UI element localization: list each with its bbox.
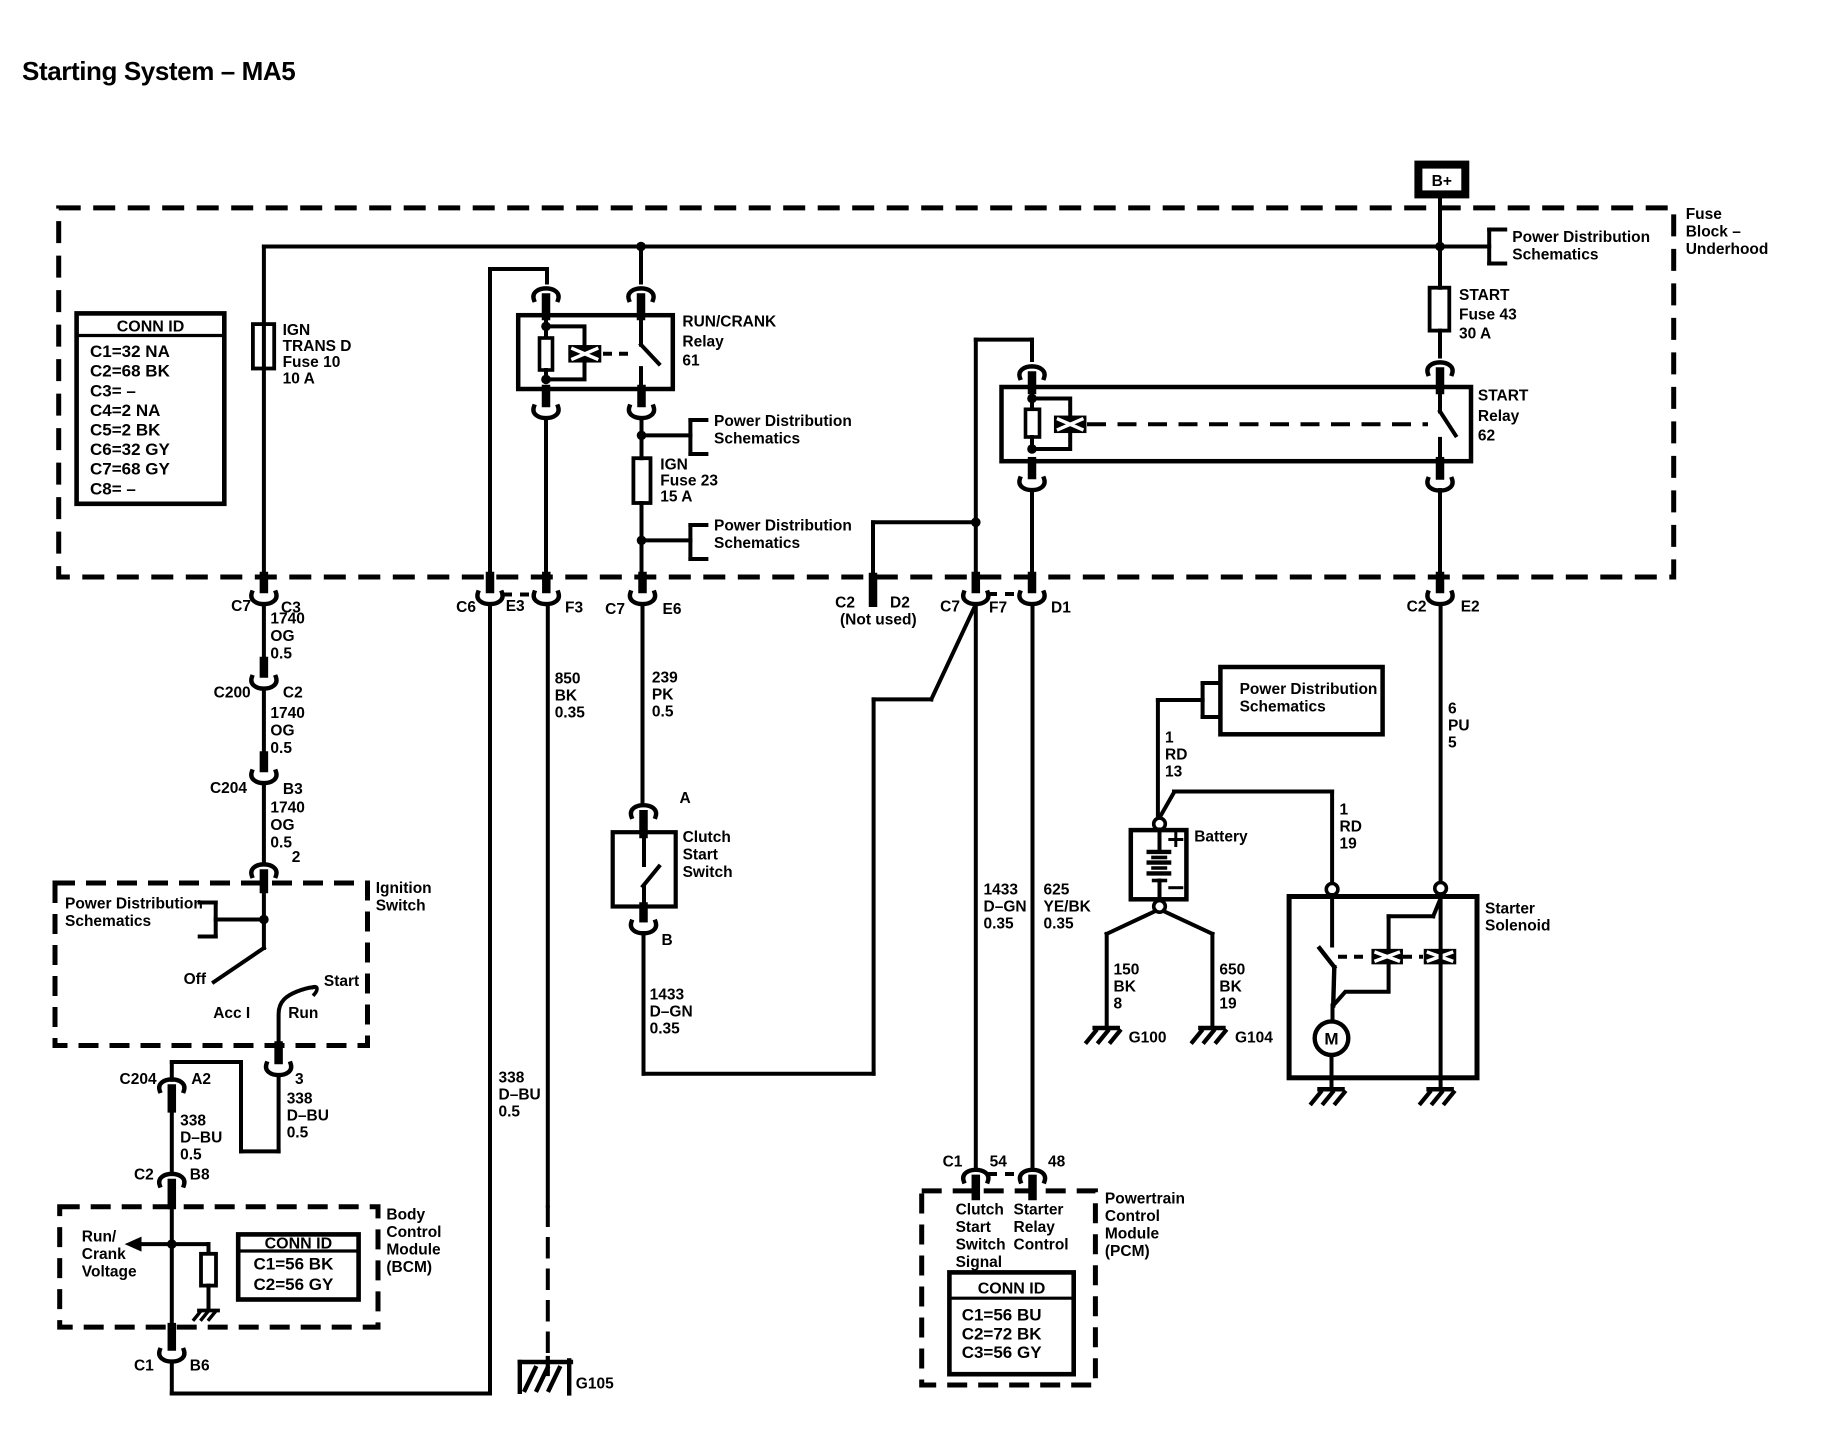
- wire battery negative to grounds: [1107, 911, 1213, 1028]
- solenoid winding RUN/CRANK: [568, 345, 601, 363]
- svg-text:Schematics: Schematics: [1512, 246, 1598, 263]
- svg-text:Schematics: Schematics: [65, 913, 151, 930]
- svg-text:YE/BK: YE/BK: [1044, 898, 1092, 915]
- label powertrain control module: [1105, 1191, 1185, 1261]
- title: [22, 56, 295, 86]
- svg-text:E6: E6: [663, 601, 682, 618]
- svg-text:Underhood: Underhood: [1686, 241, 1769, 258]
- svg-text:OG: OG: [270, 723, 294, 740]
- connector C204/B3 cup: [251, 772, 276, 784]
- label wire 338 D-BU 0.5 (riser): [499, 1069, 541, 1120]
- svg-text:F3: F3: [565, 600, 583, 617]
- svg-text:2: 2: [292, 849, 301, 866]
- svg-text:E3: E3: [506, 598, 525, 615]
- svg-text:Solenoid: Solenoid: [1485, 917, 1550, 934]
- svg-text:TRANS D: TRANS D: [283, 338, 352, 355]
- wire BCM to internal resistor: [172, 1244, 209, 1254]
- svg-text:C2: C2: [835, 595, 855, 612]
- label wire 1740 OG 0.5 (mid): [270, 705, 304, 757]
- svg-text:C2: C2: [1407, 599, 1427, 616]
- ground starter motor: [1312, 1089, 1345, 1103]
- label starter solenoid: [1485, 900, 1550, 934]
- svg-text:C2=68 BK: C2=68 BK: [90, 362, 171, 381]
- svg-text:C1=32 NA: C1=32 NA: [90, 342, 170, 361]
- svg-text:(BCM): (BCM): [386, 1259, 432, 1276]
- dashed actuator line solenoid: [1338, 955, 1423, 959]
- svg-text:850: 850: [555, 670, 581, 687]
- svg-text:Fuse 23: Fuse 23: [660, 473, 718, 490]
- svg-text:D–BU: D–BU: [287, 1107, 329, 1124]
- resistor BCM pull-down: [201, 1254, 216, 1286]
- label 3: [295, 1071, 304, 1088]
- ground solenoid winding: [1421, 1089, 1454, 1103]
- connector C200/C2 cup: [251, 677, 276, 689]
- connector C7/F7 stub: [972, 576, 981, 589]
- resistor RUN/CRANK coil parallel: [540, 338, 553, 370]
- off-page connector power distribution (ignition): [200, 903, 216, 937]
- svg-text:Start: Start: [324, 973, 359, 990]
- svg-text:Schematics: Schematics: [714, 430, 800, 447]
- svg-text:Control: Control: [1105, 1208, 1160, 1225]
- label wire 1433 D-GN 0.35 (clutch): [650, 986, 693, 1037]
- svg-text:D–BU: D–BU: [180, 1129, 222, 1146]
- svg-text:Voltage: Voltage: [82, 1264, 137, 1281]
- svg-text:RD: RD: [1165, 746, 1187, 763]
- wire START switch to E2 exit: [1438, 490, 1442, 576]
- node RUN/CRANK coil bottom: [541, 375, 551, 385]
- svg-text:0.35: 0.35: [555, 704, 586, 721]
- svg-text:Run: Run: [288, 1005, 318, 1022]
- svg-text:1: 1: [1340, 802, 1349, 819]
- connector START coil bottom cup: [1019, 479, 1044, 491]
- connector C200 pin stub: [260, 661, 269, 674]
- connector C2/E2 stub: [1436, 576, 1445, 589]
- wire motor to ground: [1330, 1055, 1334, 1089]
- label Off: [184, 971, 207, 988]
- svg-text:0.35: 0.35: [1044, 915, 1075, 932]
- ignition switch blade (Off position): [214, 948, 264, 982]
- svg-text:1433: 1433: [984, 881, 1019, 898]
- node START coil bottom: [1027, 444, 1037, 454]
- svg-text:BK: BK: [555, 687, 578, 704]
- svg-text:OG: OG: [270, 817, 294, 834]
- label E2: [1461, 599, 1480, 616]
- label C6: [456, 599, 476, 616]
- wire B+ to START fuse 43: [1438, 198, 1442, 287]
- svg-text:A2: A2: [191, 1071, 211, 1088]
- ground G100: [1087, 1028, 1120, 1042]
- connector START switch top stub: [1436, 372, 1445, 391]
- svg-text:Relay: Relay: [1478, 408, 1520, 425]
- connector C2/B8 stub: [168, 1183, 177, 1205]
- label D2: [890, 595, 910, 612]
- dashed actuator line START relay: [1087, 422, 1428, 426]
- connector PCM C1/54 stub: [972, 1179, 981, 1196]
- label C204 (A2): [120, 1071, 157, 1088]
- svg-text:Switch: Switch: [956, 1236, 1006, 1253]
- svg-text:Clutch: Clutch: [683, 829, 731, 846]
- connector RUN/CRANK switch top stub: [637, 298, 646, 317]
- label Start: [324, 973, 359, 990]
- wire tap1 to bracket: [642, 433, 691, 437]
- connector ignition pin 3 cup: [266, 1064, 291, 1076]
- label clutch start switch signal: [956, 1201, 1006, 1271]
- switch solenoid contacts: [1320, 948, 1335, 1005]
- svg-text:Module: Module: [386, 1241, 441, 1258]
- conn id table (BCM): [238, 1234, 358, 1299]
- svg-text:(Not used): (Not used): [840, 612, 917, 629]
- fuse block - underhood box: [59, 208, 1674, 577]
- label C1 (BCM): [134, 1357, 154, 1374]
- wire START fuse to relay switch: [1438, 331, 1442, 357]
- label C7 (E6): [605, 601, 625, 618]
- wire RUN/CRANK switch to IGN fuse 23: [640, 418, 644, 458]
- wire bus down to RUN/CRANK switch: [639, 247, 643, 283]
- label run/crank voltage: [82, 1229, 137, 1281]
- label wire 650 BK 19: [1219, 961, 1245, 1012]
- wire START relay coil feed: [976, 340, 1032, 576]
- label starter relay control: [1014, 1201, 1069, 1253]
- svg-text:Control: Control: [1014, 1236, 1069, 1253]
- svg-text:C1: C1: [943, 1154, 963, 1171]
- connector ignition pin 2 stub: [260, 874, 269, 890]
- svg-text:338: 338: [499, 1069, 525, 1086]
- svg-text:Battery: Battery: [1194, 829, 1248, 846]
- label C7 (F7): [940, 599, 960, 616]
- label wire 338 D-BU 0.5 (A2): [180, 1112, 222, 1163]
- connector C1/B6 cup: [159, 1350, 184, 1362]
- svg-text:C3= –: C3= –: [90, 381, 136, 400]
- connector C7/E6 stub: [638, 576, 647, 589]
- label A: [680, 790, 691, 807]
- wire BCM internal B8 to B6: [170, 1205, 174, 1327]
- switch START relay: [1440, 387, 1456, 461]
- svg-text:0.5: 0.5: [270, 740, 292, 757]
- svg-text:PU: PU: [1448, 718, 1470, 735]
- svg-text:1433: 1433: [650, 986, 685, 1003]
- label power distribution schematics (top right): [1512, 229, 1650, 263]
- svg-text:62: 62: [1478, 428, 1495, 445]
- ground BCM internal: [194, 1311, 218, 1320]
- connector ignition pin 3 stub: [274, 1046, 283, 1061]
- label power distribution schematics (tap1): [714, 413, 852, 448]
- label F7: [989, 600, 1007, 617]
- svg-text:B8: B8: [190, 1166, 210, 1183]
- label A2: [191, 1071, 211, 1088]
- connector clutch B cup: [631, 922, 656, 934]
- svg-text:C7: C7: [940, 599, 960, 616]
- dashed actuator line RUN/CRANK: [603, 352, 631, 356]
- wire solenoid winding jumper: [1335, 963, 1389, 1004]
- svg-text:Run/: Run/: [82, 1229, 117, 1246]
- fuse IGN Fuse 23: [633, 458, 650, 503]
- B+ battery feed terminal: [1418, 165, 1465, 195]
- svg-text:239: 239: [652, 669, 678, 686]
- svg-text:C1=56 BK: C1=56 BK: [254, 1254, 335, 1273]
- svg-text:650: 650: [1219, 961, 1245, 978]
- svg-text:13: 13: [1165, 763, 1183, 780]
- label C2 (D2): [835, 595, 855, 612]
- svg-text:G100: G100: [1129, 1029, 1167, 1046]
- connector PCM C1/54 cup: [963, 1170, 988, 1182]
- wire tap2 to bracket: [642, 538, 691, 542]
- svg-text:IGN: IGN: [660, 457, 688, 474]
- node F7/D2 junction: [971, 518, 981, 528]
- battery positive post circle: [1154, 818, 1166, 830]
- connector ignition pin 2 cup: [251, 864, 276, 876]
- connector C6/E3 cup: [477, 593, 502, 605]
- wire bus from IGN TRANS D fuse to B+ feed: [264, 245, 1440, 249]
- svg-text:C1: C1: [134, 1357, 154, 1374]
- connector START switch bottom stub: [1436, 461, 1445, 475]
- svg-text:1: 1: [1165, 729, 1174, 746]
- label C2 (BCM): [134, 1166, 154, 1183]
- connector C204 pin stub: [260, 756, 269, 769]
- node bus / RUN-CRANK relay switch junction: [636, 242, 646, 252]
- svg-text:C2: C2: [283, 685, 303, 702]
- svg-text:START: START: [1459, 287, 1510, 304]
- body control module box: [60, 1207, 378, 1327]
- svg-text:B+: B+: [1432, 173, 1452, 190]
- label 54: [990, 1154, 1008, 1171]
- label C1 (PCM): [943, 1154, 963, 1171]
- wire RUN/CRANK coil pin to resistor: [544, 316, 548, 338]
- ignition switch box: [55, 883, 368, 1046]
- svg-text:0.35: 0.35: [984, 915, 1015, 932]
- battery cells: [1149, 830, 1169, 902]
- label G105: [576, 1376, 614, 1393]
- connector clutch A cup: [631, 805, 656, 817]
- svg-text:Power Distribution: Power Distribution: [714, 413, 852, 430]
- svg-text:A: A: [680, 790, 691, 807]
- node E6 power distribution tap 1: [637, 431, 647, 441]
- connector START switch bottom cup: [1427, 479, 1452, 491]
- svg-text:6: 6: [1448, 701, 1457, 718]
- label IGN fuse 23 15A: [660, 457, 718, 506]
- svg-text:Starter: Starter: [1014, 1201, 1064, 1218]
- label C2 (E2): [1407, 599, 1427, 616]
- svg-text:338: 338: [287, 1090, 313, 1107]
- wire E3 riser up to fuse block: [488, 604, 492, 1394]
- connector RUN/CRANK switch bottom stub: [637, 389, 646, 403]
- wire START resistor bottom: [1030, 437, 1034, 449]
- label wire 850 BK 0.35: [555, 670, 586, 721]
- svg-text:150: 150: [1114, 961, 1140, 978]
- svg-text:B: B: [662, 932, 673, 949]
- connector RUN/CRANK switch bottom cup: [629, 407, 654, 419]
- label G104: [1235, 1029, 1273, 1046]
- svg-text:B3: B3: [283, 781, 303, 798]
- svg-text:Fuse: Fuse: [1686, 206, 1723, 223]
- label power distribution schematics (battery): [1240, 681, 1378, 716]
- svg-text:61: 61: [682, 353, 700, 370]
- svg-text:10 A: 10 A: [283, 371, 315, 388]
- connector PCM 48 cup: [1020, 1170, 1045, 1182]
- ignition run contact curve with start hook: [279, 987, 317, 1046]
- svg-text:Power Distribution: Power Distribution: [1240, 681, 1378, 698]
- svg-text:D–GN: D–GN: [984, 898, 1027, 915]
- svg-text:BK: BK: [1114, 978, 1137, 995]
- connector F3 stub: [542, 576, 551, 589]
- svg-text:C2=72 BK: C2=72 BK: [962, 1324, 1043, 1343]
- svg-text:C8= –: C8= –: [90, 479, 136, 498]
- connector clutch A stub: [639, 814, 648, 834]
- connector C7/E6 cup: [630, 593, 655, 605]
- label wire 1740 OG 0.5 (upper): [270, 610, 304, 662]
- wire E2 to starter solenoid: [1439, 604, 1443, 882]
- wire ignition feed to switch pivot: [216, 889, 264, 948]
- wire IGN fuse 23 to E6 exit: [640, 503, 644, 576]
- svg-text:Switch: Switch: [683, 864, 733, 881]
- connector tie E3-F3: [503, 593, 535, 597]
- svg-text:54: 54: [990, 1154, 1008, 1171]
- wire F3 to G105 dashed part: [546, 1206, 550, 1361]
- svg-text:PK: PK: [652, 686, 674, 703]
- label wire 1433 D-GN 0.35 (PCM): [984, 881, 1027, 932]
- relay START 62 box: [1002, 387, 1472, 461]
- label power distribution schematics (ignition): [65, 895, 203, 930]
- node RUN/CRANK coil top: [541, 322, 551, 332]
- svg-text:Module: Module: [1105, 1226, 1160, 1243]
- svg-text:1740: 1740: [270, 800, 304, 817]
- wire A2 to BCM pin B8: [170, 1108, 174, 1173]
- label G100: [1129, 1029, 1167, 1046]
- svg-text:C6=32 GY: C6=32 GY: [90, 440, 171, 459]
- svg-text:CONN ID: CONN ID: [265, 1236, 333, 1253]
- label C3: [281, 600, 301, 617]
- ground G105: [520, 1358, 571, 1393]
- connector D2 stub (not used): [869, 577, 878, 603]
- label F3: [565, 600, 583, 617]
- wire B3 to ignition switch pin 2: [262, 783, 266, 863]
- svg-text:0.5: 0.5: [287, 1124, 309, 1141]
- svg-text:RUN/CRANK: RUN/CRANK: [682, 314, 777, 331]
- svg-text:C7: C7: [605, 601, 625, 618]
- label D1: [1051, 600, 1071, 617]
- svg-text:G105: G105: [576, 1376, 614, 1393]
- svg-text:D1: D1: [1051, 600, 1071, 617]
- wire C3 to C200: [262, 604, 266, 661]
- wire F7 to PCM pin 54: [974, 604, 978, 1169]
- svg-text:0.5: 0.5: [270, 835, 292, 852]
- svg-text:Ignition: Ignition: [376, 880, 432, 897]
- svg-text:Off: Off: [184, 971, 207, 988]
- label START fuse 43 30A: [1459, 287, 1517, 343]
- power distribution schematics box: [1220, 667, 1382, 734]
- svg-text:Schematics: Schematics: [714, 535, 800, 552]
- connector RUN/CRANK coil top cup: [533, 288, 558, 300]
- connector C2/B8 cup: [159, 1174, 184, 1186]
- label START relay 62: [1478, 388, 1529, 445]
- svg-text:C6: C6: [456, 599, 476, 616]
- svg-text:15 A: 15 A: [660, 489, 692, 506]
- resistor START coil parallel: [1026, 409, 1040, 437]
- svg-text:Start: Start: [956, 1219, 991, 1236]
- svg-text:Relay: Relay: [1014, 1219, 1056, 1236]
- svg-text:Body: Body: [386, 1206, 425, 1223]
- label IGN TRANS D Fuse 10 10A: [283, 322, 352, 388]
- svg-text:0.5: 0.5: [499, 1103, 521, 1120]
- svg-text:C2: C2: [134, 1166, 154, 1183]
- conn id table (PCM): [949, 1272, 1073, 1374]
- svg-text:Acc I: Acc I: [213, 1005, 250, 1022]
- connector tie F7-D1: [988, 592, 1020, 596]
- connector START switch top cup: [1427, 362, 1452, 374]
- svg-text:CONN ID: CONN ID: [978, 1281, 1046, 1298]
- node bus / B+ junction: [1435, 242, 1445, 252]
- wire clutch B to F7 riser: [644, 606, 976, 1074]
- solenoid winding hold-in: [1424, 949, 1457, 965]
- wire B6 down and right to E3 riser: [172, 1362, 490, 1394]
- svg-text:30 A: 30 A: [1459, 325, 1491, 342]
- svg-text:C204: C204: [120, 1071, 157, 1088]
- wire START coil pin to resistor: [1030, 388, 1034, 409]
- svg-text:Power Distribution: Power Distribution: [1512, 229, 1650, 246]
- svg-text:D–GN: D–GN: [650, 1003, 693, 1020]
- label ignition switch: [376, 880, 432, 915]
- label wire 1 RD 13: [1165, 729, 1187, 780]
- switch clutch start: [643, 832, 659, 906]
- fuse block - underhood label: [1686, 206, 1769, 258]
- wire E3 top link to RUN/CRANK relay coil: [490, 269, 547, 576]
- connector C1/B6 stub: [168, 1327, 177, 1346]
- battery negative post circle: [1154, 901, 1166, 913]
- svg-text:Signal: Signal: [956, 1254, 1003, 1271]
- label wire 6 PU 5: [1448, 701, 1470, 752]
- svg-text:8: 8: [1114, 995, 1123, 1012]
- svg-text:Powertrain: Powertrain: [1105, 1191, 1185, 1208]
- clutch start switch box: [613, 832, 676, 906]
- connector START coil bottom stub: [1028, 461, 1037, 475]
- connector START coil top stub: [1028, 376, 1037, 391]
- connector pin C7/C3 stub: [260, 576, 269, 589]
- svg-text:C200: C200: [214, 685, 251, 702]
- label E6: [663, 601, 682, 618]
- connector START coil top cup: [1019, 366, 1044, 378]
- connector RUN/CRANK switch top cup: [628, 288, 653, 300]
- connector C6/E3 stub: [486, 576, 495, 589]
- svg-text:Block –: Block –: [1686, 223, 1742, 240]
- wire D1 to PCM pin 48: [1031, 604, 1035, 1169]
- node START coil top: [1027, 394, 1037, 404]
- svg-text:C3=56 GY: C3=56 GY: [962, 1343, 1043, 1362]
- wire RUN/CRANK resistor bottom: [544, 370, 548, 379]
- wire battery feed to bracket: [1158, 698, 1203, 702]
- wire RUN/CRANK coil to F3 exit: [544, 418, 548, 576]
- solenoid winding pull-in: [1371, 949, 1403, 965]
- connector RUN/CRANK coil bottom cup: [533, 407, 558, 419]
- svg-text:IGN: IGN: [283, 322, 311, 339]
- solenoid winding START relay: [1054, 416, 1087, 434]
- label E3: [506, 598, 525, 615]
- svg-text:Starter: Starter: [1485, 900, 1535, 917]
- label B6: [190, 1357, 210, 1374]
- label RUN/CRANK relay 61: [682, 314, 777, 370]
- connector C7/F7 cup: [963, 593, 988, 605]
- label not used: [840, 612, 917, 629]
- wire 1 RD 19 from positive post: [1161, 792, 1333, 884]
- node E6 power distribution tap 2: [637, 536, 647, 546]
- connector C204/A2 stub: [168, 1089, 177, 1109]
- connector RUN/CRANK coil top stub: [542, 298, 551, 317]
- battery minus sign: [1170, 886, 1182, 889]
- label B3: [283, 781, 303, 798]
- connector F3 cup: [534, 593, 559, 605]
- svg-text:5: 5: [1448, 735, 1457, 752]
- connector clutch B stub: [639, 907, 648, 919]
- label wire 338 D-BU 0.5 (pin3): [287, 1090, 329, 1141]
- svg-text:START: START: [1478, 388, 1529, 405]
